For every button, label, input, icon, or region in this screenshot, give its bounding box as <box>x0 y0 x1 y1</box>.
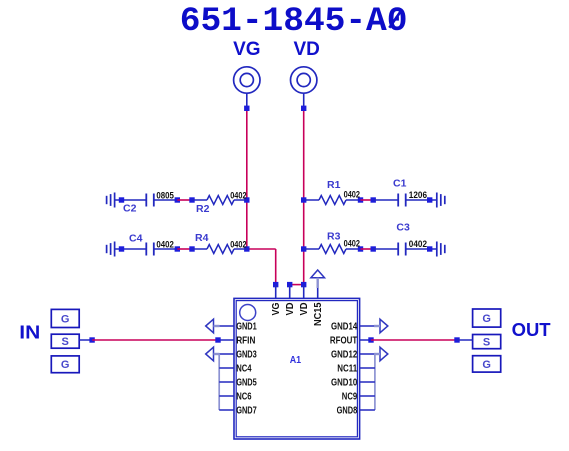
svg-text:NC11: NC11 <box>337 363 357 374</box>
svg-text:IN: IN <box>19 323 40 343</box>
svg-text:OUT: OUT <box>512 320 551 340</box>
svg-text:RFOUT: RFOUT <box>330 335 357 346</box>
svg-text:0805: 0805 <box>156 190 174 201</box>
svg-text:GND1: GND1 <box>236 321 257 332</box>
svg-text:NC15: NC15 <box>313 302 324 326</box>
svg-text:RFIN: RFIN <box>236 335 255 346</box>
svg-text:GND8: GND8 <box>337 405 358 416</box>
svg-text:G: G <box>482 313 491 325</box>
svg-text:C2: C2 <box>123 203 137 215</box>
svg-text:NC6: NC6 <box>236 391 252 402</box>
svg-text:651-1845-A0: 651-1845-A0 <box>180 2 408 41</box>
svg-text:S: S <box>62 336 69 348</box>
svg-text:VG: VG <box>233 39 260 60</box>
svg-text:R4: R4 <box>195 232 209 244</box>
svg-text:C4: C4 <box>129 232 143 244</box>
svg-text:R2: R2 <box>196 203 210 215</box>
svg-text:G: G <box>61 359 70 371</box>
svg-text:R1: R1 <box>327 179 341 191</box>
svg-text:VG: VG <box>271 302 282 315</box>
svg-text:VD: VD <box>293 39 319 60</box>
svg-text:C3: C3 <box>396 222 410 234</box>
svg-text:R3: R3 <box>327 230 341 242</box>
svg-text:GND14: GND14 <box>331 321 358 332</box>
svg-text:GND12: GND12 <box>331 349 358 360</box>
svg-text:0402: 0402 <box>230 239 246 250</box>
svg-text:0402: 0402 <box>156 239 174 250</box>
svg-text:C1: C1 <box>393 177 407 189</box>
svg-text:GND3: GND3 <box>236 349 257 360</box>
svg-text:S: S <box>483 337 490 349</box>
svg-text:A1: A1 <box>290 354 302 366</box>
svg-text:G: G <box>482 359 491 371</box>
svg-text:GND10: GND10 <box>331 377 358 388</box>
svg-text:GND7: GND7 <box>236 405 257 416</box>
svg-text:0402: 0402 <box>409 239 427 250</box>
svg-text:0402: 0402 <box>344 239 360 250</box>
svg-text:NC9: NC9 <box>342 391 358 402</box>
svg-text:1206: 1206 <box>409 190 427 201</box>
svg-text:VD: VD <box>299 303 310 316</box>
svg-text:GND5: GND5 <box>236 377 257 388</box>
svg-text:0402: 0402 <box>344 190 360 201</box>
svg-text:NC4: NC4 <box>236 363 252 374</box>
svg-text:VD: VD <box>285 303 296 316</box>
svg-text:G: G <box>61 313 70 325</box>
svg-text:0402: 0402 <box>230 190 246 201</box>
